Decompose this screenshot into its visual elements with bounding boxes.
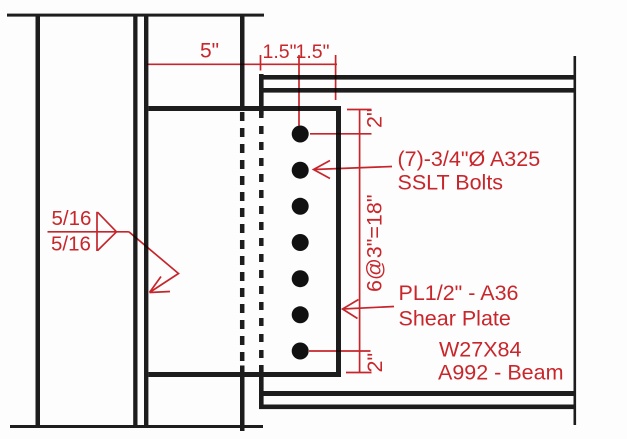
svg-text:5/16: 5/16 bbox=[52, 207, 92, 230]
svg-text:1.5": 1.5" bbox=[263, 41, 297, 63]
svg-text:2": 2" bbox=[363, 353, 387, 373]
svg-text:A992 - Beam: A992 - Beam bbox=[438, 361, 563, 385]
svg-text:2": 2" bbox=[363, 108, 387, 128]
svg-text:Shear Plate: Shear Plate bbox=[399, 307, 511, 331]
svg-text:W27X84: W27X84 bbox=[439, 338, 522, 362]
svg-text:(7)-3/4"Ø A325: (7)-3/4"Ø A325 bbox=[398, 147, 541, 171]
svg-text:5/16: 5/16 bbox=[51, 233, 91, 256]
svg-text:1.5": 1.5" bbox=[296, 41, 330, 63]
svg-text:SSLT Bolts: SSLT Bolts bbox=[398, 171, 504, 195]
svg-text:6@3"=18": 6@3"=18" bbox=[363, 195, 387, 292]
svg-text:PL1/2" - A36: PL1/2" - A36 bbox=[399, 281, 519, 305]
svg-text:5": 5" bbox=[200, 40, 219, 63]
